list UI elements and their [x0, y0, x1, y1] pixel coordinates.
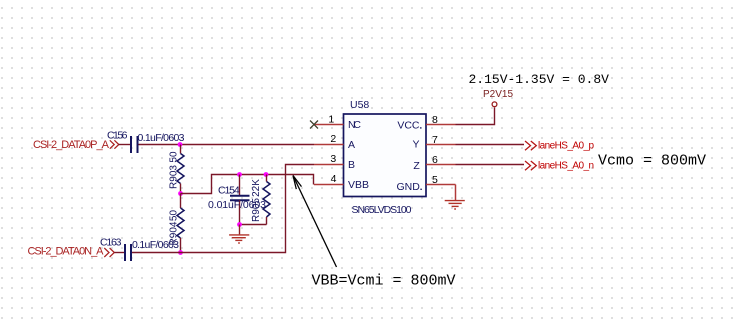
svg-text:laneHS_A0_n: laneHS_A0_n [538, 161, 594, 172]
svg-text:VBB=Vcmi = 800mV: VBB=Vcmi = 800mV [312, 272, 456, 289]
wire pin 6 (Z) to laneHS_A0_n [456, 164, 525, 166]
svg-text:50: 50 [169, 210, 180, 222]
junction dot N-net / R904 [178, 250, 183, 255]
net label laneHS_A0_p [525, 141, 594, 152]
svg-text:2: 2 [330, 133, 336, 145]
net label CSI-2_DATA0P_A [33, 139, 119, 151]
svg-text:0.1uF/0603: 0.1uF/0603 [138, 132, 185, 144]
IC U58 pin names [348, 119, 422, 193]
wire pin 7 (Y) to laneHS_A0_p [456, 144, 525, 146]
svg-text:50: 50 [169, 151, 180, 163]
svg-text:Vcmo = 800mV: Vcmo = 800mV [598, 152, 706, 169]
svg-text:2.15V-1.35V = 0.8V: 2.15V-1.35V = 0.8V [469, 72, 610, 87]
net label laneHS_A0_n [525, 161, 594, 172]
net label CSI-2_DATA0N_A [28, 246, 115, 258]
svg-text:SN65LVDS100: SN65LVDS100 [352, 204, 412, 216]
svg-text:B: B [348, 159, 355, 171]
wire N-net: C163 to corner, up to IC pin B [132, 165, 314, 253]
wire C154 bottom to R905 bottom [240, 224, 267, 226]
svg-text:3: 3 [330, 153, 336, 165]
junction dot R903/R904/VBB net [178, 191, 183, 196]
power symbol P2V15 [483, 89, 513, 107]
junction dot P-net / R903 [178, 142, 183, 147]
capacitor C156 [107, 130, 185, 154]
svg-text:R905: R905 [251, 198, 262, 222]
svg-text:C156: C156 [107, 130, 128, 142]
svg-text:22K: 22K [251, 179, 262, 197]
no-connect X on pin 1 [310, 121, 318, 129]
annotation arrow to VBB wire [293, 176, 337, 268]
svg-text:U58: U58 [350, 99, 369, 111]
junction dot ground node [237, 222, 242, 227]
resistor R904 [169, 194, 185, 253]
svg-text:NC: NC [348, 119, 361, 131]
resistor R905 [251, 175, 270, 225]
wire P-net: port to C156 [119, 144, 131, 146]
wire VBB net: R junction to staircase to IC pin VBB [181, 175, 314, 194]
IC U58 body [344, 99, 427, 216]
resistor R903 [169, 145, 185, 194]
svg-text:laneHS_A0_p: laneHS_A0_p [538, 141, 594, 152]
svg-text:C154: C154 [218, 185, 240, 197]
wire N-net: port to C163 [114, 252, 124, 254]
svg-text:VCC: VCC [397, 120, 420, 132]
IC U58 pin stubs [314, 125, 456, 185]
svg-text:CSI-2_DATA0N_A: CSI-2_DATA0N_A [28, 246, 105, 258]
wire pin 8 (VCC) to P2V15 [456, 108, 495, 125]
junction dot VBB / R905 [264, 172, 269, 177]
svg-text:R903: R903 [169, 165, 180, 189]
IC U58 pin numbers [328, 114, 438, 186]
svg-text:C163: C163 [100, 237, 122, 249]
capacitor C163 [100, 237, 179, 262]
ground symbol (GND pin) [445, 201, 465, 209]
svg-text:P2V15: P2V15 [483, 89, 513, 100]
junction dot VBB / C154 [237, 172, 242, 177]
svg-text:VBB: VBB [348, 179, 369, 191]
svg-text:4: 4 [331, 173, 337, 185]
capacitor C154 [208, 175, 266, 225]
svg-text:Y: Y [412, 139, 419, 151]
svg-text:CSI-2_DATA0P_A: CSI-2_DATA0P_A [33, 139, 110, 151]
svg-text:A: A [348, 139, 355, 151]
svg-text:Z: Z [413, 160, 420, 172]
ground symbol (C154) [229, 225, 249, 244]
wire P-net: C156 to IC pin A [139, 144, 315, 146]
wire pin 5 (GND) to ground [455, 185, 457, 201]
svg-text:GND: GND [396, 181, 420, 193]
svg-text:0.1uF/0603: 0.1uF/0603 [132, 239, 179, 251]
